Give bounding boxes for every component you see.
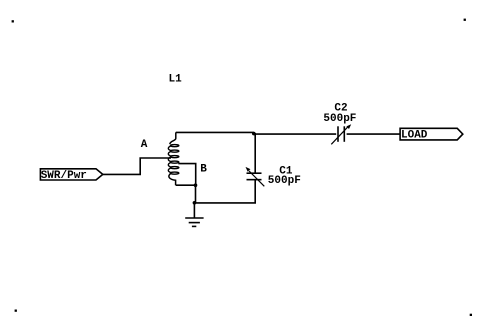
arrow head C1 — [246, 167, 251, 172]
arrow line C2 — [331, 127, 348, 145]
svg-text:A: A — [141, 139, 148, 151]
wire top rail coil to C2 — [176, 131, 254, 133]
corner mark bottom-right — [470, 314, 472, 316]
svg-text:B: B — [200, 164, 207, 176]
wire junction to ground junction — [195, 185, 197, 203]
wire SWR/Pwr to node A tap — [103, 158, 171, 174]
junction dot ground node — [193, 201, 197, 205]
wire C2 to LOAD — [347, 133, 401, 135]
svg-text:SWR/Pwr: SWR/Pwr — [41, 170, 87, 182]
svg-text:500pF: 500pF — [268, 175, 301, 187]
svg-text:LOAD: LOAD — [401, 130, 428, 142]
svg-text:500pF: 500pF — [323, 113, 356, 125]
capacitor C1 (variable) — [247, 133, 262, 180]
capacitor C2 (variable) — [338, 126, 344, 142]
junction dot top rail / C1 — [252, 132, 256, 136]
svg-text:L1: L1 — [169, 73, 183, 85]
corner mark top-left — [12, 20, 14, 22]
wire tap B — [178, 164, 195, 186]
wire ground node to C1 bottom — [194, 180, 255, 203]
arrow line C1 — [249, 171, 264, 186]
corner mark bottom-left — [15, 310, 17, 312]
port flag SWR/Pwr — [40, 169, 102, 180]
wire coil bottom to junction — [176, 184, 196, 186]
ground symbol — [185, 203, 203, 227]
inductor L1 — [168, 132, 179, 185]
port flag LOAD — [400, 128, 463, 140]
wire junction to C2 — [254, 133, 336, 135]
corner mark top-right — [464, 19, 466, 21]
junction dot B/coil bottom — [194, 183, 198, 187]
arrow head C2 — [346, 124, 351, 129]
